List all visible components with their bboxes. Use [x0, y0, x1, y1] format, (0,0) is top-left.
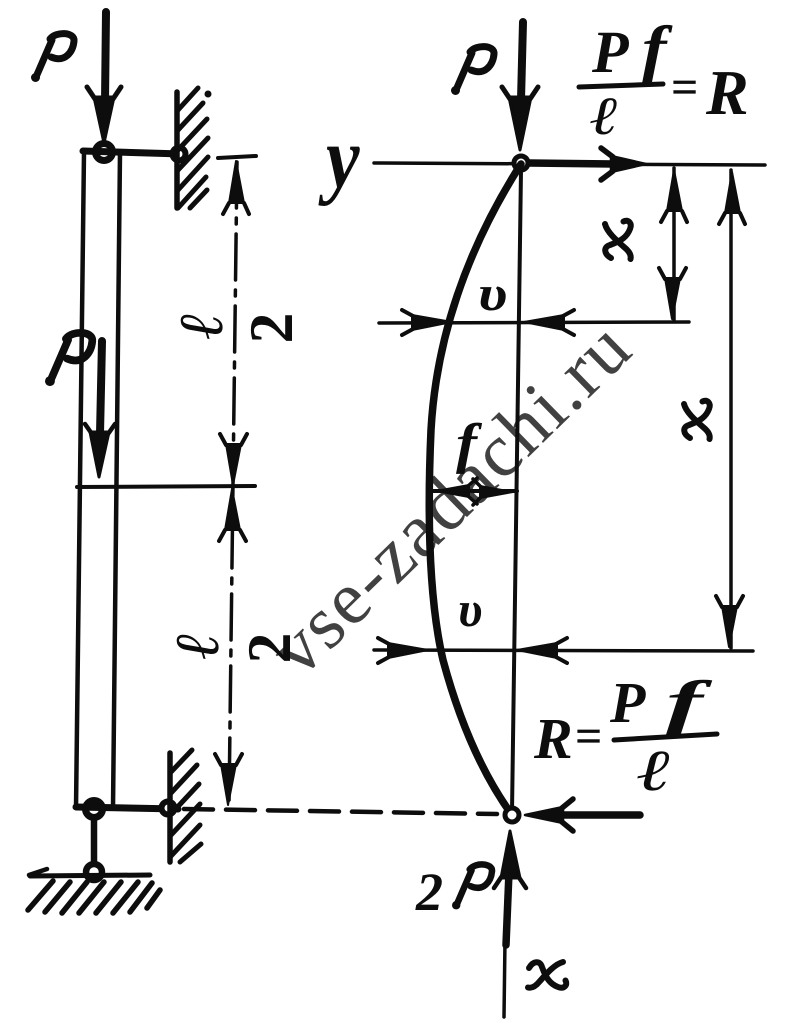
mid line: [77, 486, 255, 487]
upper v arrow right: [412, 315, 452, 330]
pin bottom right: [505, 808, 519, 822]
short x arrow down: [665, 278, 680, 319]
wall hatch bottom: [171, 750, 192, 772]
y-axis thick arrow: [529, 163, 614, 164]
force P arrow top: [105, 12, 106, 102]
upper v arrow left: [524, 315, 564, 330]
force P arrow right: [521, 22, 523, 100]
label f: [456, 423, 482, 474]
formula R = Pf/l bottom: [534, 680, 712, 791]
top bar: [83, 151, 182, 154]
y-axis line: [374, 163, 765, 165]
formula Pf/l = R top: [590, 25, 746, 135]
axis label y: [318, 147, 359, 206]
wall line bottom: [167, 753, 173, 862]
label 2 lower: [249, 635, 290, 661]
column right line: [113, 152, 120, 808]
wall line top: [174, 92, 180, 208]
f arrow right: [480, 486, 513, 498]
bottom bar: [76, 807, 178, 809]
dim arrow down bottom: [221, 764, 236, 805]
lower v arrow left: [517, 643, 557, 658]
pin top right: [514, 156, 528, 170]
label x long dim: [684, 401, 710, 439]
wall hatch top: [178, 88, 198, 110]
ground hatch: [28, 881, 53, 910]
dashed transfer line: [184, 809, 497, 814]
force label P right: [451, 47, 494, 95]
short x dimension line: [672, 168, 676, 321]
label l upper: [181, 315, 223, 339]
dim arrow up top: [229, 161, 244, 203]
watermark vse-zadachi.ru: [263, 317, 634, 681]
label l lower: [177, 635, 219, 659]
force label P mid-left: [45, 333, 92, 386]
lower v dimension line: [374, 650, 753, 651]
force label P top-left: [31, 34, 74, 82]
dim arrow down mid: [226, 444, 241, 485]
long x arrow down: [722, 606, 737, 647]
dimension top tick: [218, 156, 256, 158]
dim arrow up mid: [225, 489, 240, 530]
fraction bar bottom: [614, 734, 717, 740]
upper v dimension line: [379, 322, 689, 323]
dimension dash-dot line: [229, 162, 237, 805]
force 2P arrow up: [506, 872, 509, 945]
label 2P: [415, 874, 442, 910]
fraction bar top: [579, 84, 663, 87]
buckled column curve: [429, 164, 521, 815]
lower v arrow right: [388, 643, 428, 658]
chord line: [512, 170, 521, 812]
pin top wall: [173, 148, 186, 161]
column left line: [76, 152, 84, 808]
f arrow left: [436, 485, 469, 497]
ground line: [30, 875, 150, 876]
label v lower: [460, 603, 481, 627]
pin bottom wall: [162, 802, 175, 815]
f dimension line: [432, 489, 517, 493]
reaction R arrow bottom: [562, 811, 640, 819]
force P arrow mid: [100, 341, 102, 434]
pin bottom-left: [86, 801, 103, 818]
long x arrow up: [725, 172, 740, 213]
label v upper: [480, 287, 506, 311]
link to ground pin: [91, 819, 98, 863]
axis label x: [528, 962, 566, 988]
long x dimension line: [729, 170, 733, 648]
x-axis line: [504, 940, 505, 1017]
pin ground: [86, 864, 102, 880]
label x short dim: [605, 221, 631, 259]
label 2 upper: [251, 315, 292, 341]
short x arrow up: [667, 170, 682, 211]
pin top-left: [96, 144, 113, 161]
